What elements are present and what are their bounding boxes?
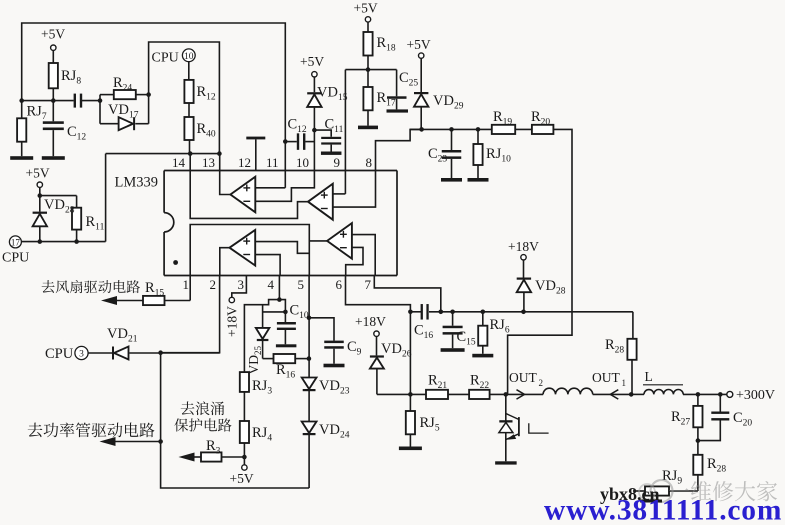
node dot RJ7/rail [19,98,24,103]
resistor R16 [263,354,309,381]
svg-text:9: 9 [334,155,341,170]
pin 7 [365,276,441,312]
wire R18 node to pin 9 and C25 [345,69,396,71]
resistor RJ6 [472,312,510,358]
op-amp comparator C (pins 7,6 in / 5,1 out) [327,223,352,259]
wire comparator A output to pin 13 [220,171,231,195]
node dot R40/pin14 [188,151,193,156]
svg-text:8: 8 [366,155,373,170]
wire comparator C output to pins 1 and 5 [190,225,327,276]
resistor R17 [363,70,396,126]
resistor R20 [531,109,553,134]
wire comparator D - input to pin 4 [255,255,280,276]
node dot pin10/C11 [312,128,317,133]
wire row above LM339 pins 14/13 [106,153,220,155]
wire comparator B + input to pin 9 [333,171,346,194]
svg-text:1: 1 [183,277,190,292]
diode VD15 [307,77,348,130]
wire +5V top rail from RJ7/RJ8 node to LM339 pin 11 [22,23,286,171]
diode VD25 [246,305,269,375]
wire comparator C + input to pin 7 [352,235,375,276]
resistor R27 [671,394,703,440]
svg-text:7: 7 [365,277,372,292]
node dot RJ8/C12 [51,98,56,103]
ground (R17) [358,126,378,130]
svg-text:L: L [645,369,653,384]
svg-text:6: 6 [336,277,343,292]
svg-text:LM339: LM339 [115,175,159,191]
wire comparator A - input to pin 10 [255,171,314,202]
text: to surge protection circuit [174,401,231,431]
arrow to power drive [100,437,161,446]
diode VD21 [88,326,220,360]
pin 6 [336,276,411,312]
pin 2 [161,276,220,353]
capacitor C12 (coupling at pin 11) [285,117,314,150]
wire RJ4 to +5V terminal [243,443,245,465]
node dot RJ6 top [481,310,486,315]
diode VD28 (right) [517,260,566,312]
wire comparator B output to pin 14 [190,171,308,219]
ground (C12 left) [42,156,65,160]
svg-text:12: 12 [238,155,251,170]
node dot R3/RJ4 [242,455,247,460]
inductor L [631,369,683,394]
svg-text:OUT: OUT [509,370,537,385]
node dot RJ10 top [476,127,481,132]
svg-text:11: 11 [266,155,279,170]
wire RJ3-RJ4 [243,392,245,421]
capacitor C15 [441,312,476,352]
svg-text:+18V: +18V [225,306,240,337]
terminal +18V (VD28) [508,239,539,260]
capacitor C11 [314,117,343,155]
svg-text:2: 2 [539,378,544,388]
svg-text:+5V: +5V [26,166,50,181]
resistor R22 [469,373,490,400]
wire pin5 long vertical (VD23/VD24 chain) [308,276,310,489]
svg-text:4: 4 [268,277,275,292]
node CPU 3 terminal [45,346,88,362]
capacitor C16 [414,304,433,341]
wire node row (RJ7-RJ8-C cap) [22,100,100,102]
node dot box/pin13 [217,151,222,156]
wire between inductors [593,393,632,395]
text OUT2 [509,370,543,388]
text OUT1 [592,370,626,388]
node dot C23 top [449,127,454,132]
resistor RJ8 [49,50,82,100]
pin 1 [183,276,191,301]
svg-text:1: 1 [622,378,627,388]
svg-text:5: 5 [298,277,305,292]
svg-text:+18V: +18V [355,314,386,329]
terminal +5V (VD28 left) [26,166,50,188]
resistor R40 [184,117,216,154]
wire R19-R20 [515,128,532,130]
resistor R28 (lower) [693,441,726,491]
capacitor C9 [309,318,362,368]
resistor RJ10 [468,129,512,181]
capacitor C25 [387,70,419,113]
node dot OUT1 [629,392,634,397]
wire VD25 to C10 node [263,311,286,313]
op-amp U1 LM339 package outline [115,171,398,276]
wire R12-R40 [188,103,190,117]
diode VD23 [302,378,350,397]
svg-text:+5V: +5V [407,37,431,52]
arrow left on OUT1 line [610,390,618,399]
terminal +5V (RJ8) [41,27,65,51]
node dot R11 bottom [74,239,79,244]
node dot R24/VD17 right [146,92,151,97]
watermark ybx8.cn [600,484,662,504]
svg-text:+300V: +300V [736,388,775,403]
svg-text:CPU: CPU [45,346,74,362]
node dot R18/R17 [366,67,371,72]
capacitor C20 [698,394,753,440]
svg-text:14: 14 [172,155,186,170]
node CPU 17 terminal [2,236,29,266]
node dot C10 top [283,310,288,315]
capacitor C23 [428,129,462,181]
wire comparator B - input to pin 8 [333,171,376,208]
resistor R18 [363,22,396,70]
diode VD26 [370,336,412,394]
terminal +5V (VD15) [300,54,324,77]
node dot VD29 bottom [419,127,424,132]
svg-text:www.3811111.com: www.3811111.com [544,495,782,525]
capacitor C12 (left) [43,101,87,157]
resistor RJ3 [240,372,273,396]
resistor R19 [492,109,515,134]
watermark gray logo circle [639,480,673,502]
text: to power transistor drive circuit [28,422,155,437]
terminal +18V (pin 3) [225,297,240,337]
node dot R27 top [696,392,701,397]
ground (C10) [276,344,297,347]
wire left drop from row to CPU-17 net [105,154,107,242]
node dot R27/C20 bottom [696,438,701,443]
wire R20 to OUT2 node (long right drop) [508,129,572,394]
pin 3 [232,276,247,298]
wire comparator D + input to comparator C output net [255,242,309,254]
svg-text:+5V: +5V [230,471,254,486]
op-amp comparator A (pins 11,10 in / 13 out) [230,177,255,213]
diode VD24 [302,422,350,441]
svg-text:+18V: +18V [508,239,539,254]
node dot RJ5 branch [408,392,413,397]
svg-text:CPU: CPU [2,251,29,266]
resistor RJ4 [240,421,273,444]
wire down from VD21 node [160,353,162,442]
transistor Q1 with parallel diode [499,394,549,461]
svg-text:+5V: +5V [354,1,378,16]
terminal +300V [727,388,775,403]
terminal +18V (VD26) [355,314,386,336]
watermark gray text [669,481,777,501]
pin 14 [172,154,190,171]
resistor R15 with arrow [101,296,190,305]
pin 10 [296,130,314,170]
svg-text:13: 13 [202,155,215,170]
wire net M (C16 right to R28) [429,311,633,313]
node dot pin 4 [277,297,282,302]
terminal +5V (VD29) [407,37,431,58]
node dot pin11/C12 [283,139,288,144]
resistor R24 [100,75,149,101]
pin 13 [202,154,220,171]
wire R21/R22 row [377,393,506,395]
wire pin4 to C10 top [279,300,285,312]
pin 8 [366,129,422,170]
pin 5 [298,277,305,292]
arrow to surge protection (R3) [179,453,195,462]
svg-text:2: 2 [210,277,217,292]
pin 1 marker dot [173,260,178,265]
resistor R3 [186,438,244,462]
node dot VD28 bottom / net M [521,310,526,315]
wire C16 left stub [410,311,421,313]
node dot above VD28 [38,193,43,198]
node dot C15 top [450,310,455,315]
diode VD28 (left) [33,196,75,242]
node dot pin6/C16 left [408,310,413,315]
pin 12 with ground bar above [238,137,265,171]
pin 9 [334,70,346,171]
resistor R21 [426,373,448,400]
node dot C16 right / pin7 [439,310,444,315]
node CPU 10 terminal [152,49,196,66]
inductor (OUT2 side) [543,388,593,394]
resistor R12 [184,62,216,103]
terminal +5V (R18) [354,1,378,23]
diode VD29 [414,58,464,129]
wire comparator A + input to pin 11 [255,171,285,188]
pin 11 [266,155,279,170]
wire bottom rail to VD24 [161,442,310,489]
svg-text:OUT: OUT [592,370,620,385]
wire pin4 step to RJ3 [244,300,279,373]
node dot VD28 bottom [38,239,43,244]
resistor RJ9 [633,468,698,496]
wire net VD29/R19 row [410,128,492,130]
op-amp comparator B (pins 9,8 in / 14 out) [308,184,333,220]
wire CPU-17 net [21,241,106,243]
svg-text:10: 10 [184,52,194,62]
wire OUT2-OUT1 main line [506,393,543,395]
wire pin6 net drop to R21 row [409,312,411,395]
wire CPU-10 box (left edge, top, right edge) [149,42,220,154]
pin 4 [268,276,280,300]
svg-text:17: 17 [11,237,21,247]
svg-text:3: 3 [79,350,84,360]
wire L to +300V [683,393,727,395]
node dot C20 top [718,392,723,397]
svg-text:3: 3 [238,277,245,292]
capacitor C10 [277,303,309,345]
svg-text:+5V: +5V [41,27,65,42]
resistor R11 [72,208,105,242]
ground (RJ7) [10,156,33,160]
capacitor (coupling, unlabeled) [74,94,83,108]
svg-text:+5V: +5V [300,54,324,69]
svg-text:CPU: CPU [152,51,179,66]
svg-text:10: 10 [296,155,309,170]
node dot OUT2 [504,392,509,397]
text: to fan drive circuit [42,280,165,299]
wire comparator D output to pin 2 [220,248,230,276]
diode VD17 [100,101,149,131]
node dot VD21/pin2 wire [158,350,163,355]
op-amp comparator D (pins 5,4 in / 2 out) [230,230,256,266]
resistor RJ5 [399,394,440,450]
wire comparator C - input to pin 6 [346,247,363,275]
watermark www.3811111.com [544,495,782,525]
node dot coupling-cap/R24 [98,98,103,103]
ground (Q1 emitter) [495,461,517,464]
wire +5V to VD28/R11 node [40,187,77,207]
node dot R16 right [307,356,312,361]
arrow right on OUT2 line [517,390,525,399]
resistor RJ7 [17,101,47,157]
terminal +5V (bottom) [230,465,254,486]
resistor R28 (upper) [605,312,637,395]
node dot C9 tap [307,316,312,321]
node dot power-drive branch [158,439,163,444]
